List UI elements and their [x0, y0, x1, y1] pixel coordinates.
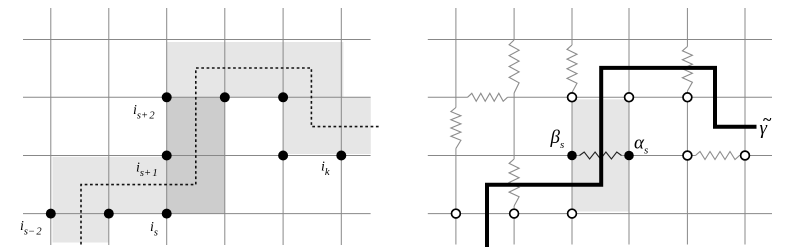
shaded cell below bottom row [53, 214, 109, 243]
spring on column 3 top band [567, 45, 577, 93]
spring on column 1 middle band [451, 108, 461, 149]
dot alpha_s [624, 151, 634, 161]
shaded column (right diagram) [572, 99, 629, 211]
svg-text:is−2: is−2 [20, 219, 43, 238]
horizontal spring right pair [696, 152, 740, 160]
horizontal spring between beta and alpha [580, 152, 622, 159]
svg-text:βs: βs [550, 127, 565, 151]
shaded top band [167, 42, 344, 97]
spring on column 2 lower band [509, 159, 519, 206]
open lattice circles [452, 93, 750, 218]
spring on column 2 top band [509, 40, 519, 93]
svg-text:~: ~ [763, 112, 772, 129]
shaded right band [283, 97, 371, 154]
spring on column 5 top band [682, 47, 692, 92]
right grid lines [428, 8, 772, 245]
svg-text:is: is [150, 220, 158, 239]
thick walk gamma [487, 68, 757, 247]
dark overlap strip [167, 97, 225, 213]
svg-text:ik: ik [321, 160, 330, 179]
svg-text:αs: αs [634, 133, 648, 157]
dot beta_s [567, 151, 577, 161]
left grid lines [23, 8, 371, 245]
dashed tube path [81, 68, 380, 245]
shaded band bottom-left (cells of dashed tube) [53, 157, 167, 214]
horizontal spring upper left [468, 93, 508, 101]
walk vertices (filled dots) [46, 92, 347, 218]
svg-text:is+2: is+2 [133, 103, 156, 122]
